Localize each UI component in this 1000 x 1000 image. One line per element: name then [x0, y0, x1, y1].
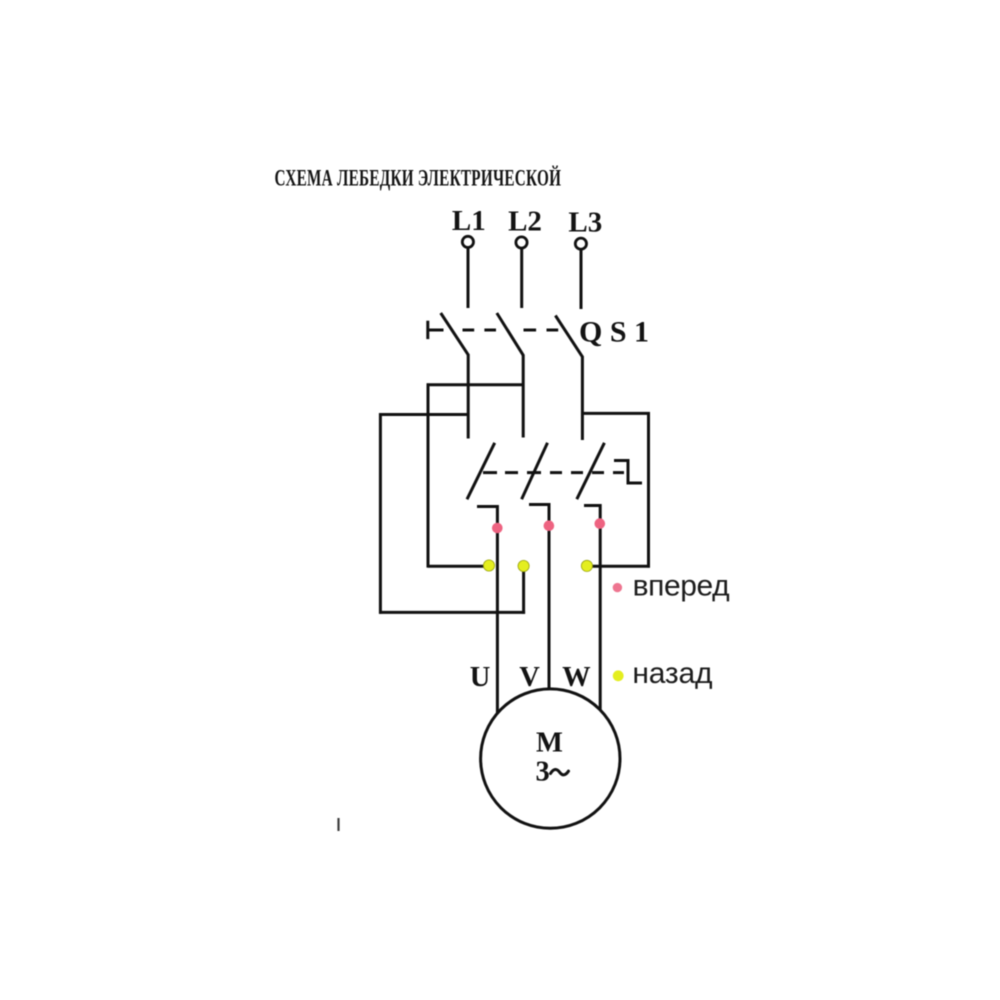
contactor linkage dashes [483, 471, 624, 474]
wire bus I horizontal bottom [379, 611, 525, 614]
wire bus A horizontal [427, 383, 524, 386]
wire L1 drop [467, 248, 470, 308]
wire bus C horizontal [379, 413, 468, 416]
wire bus E horizontal right [582, 412, 650, 415]
svg-text:назад: назад [632, 657, 712, 690]
wire L-out C [584, 506, 600, 711]
wire pole3 mid drop [581, 356, 584, 440]
svg-text:вперед: вперед [633, 569, 730, 602]
svg-text:L1: L1 [452, 205, 486, 237]
legend dot назад [613, 670, 624, 681]
wire bus F vertical right [647, 412, 650, 568]
wire L-out B [529, 505, 549, 690]
wire L-out A [477, 507, 497, 714]
motor M circle [481, 689, 620, 828]
contactor interlock step [614, 461, 642, 484]
terminal L2 [516, 237, 527, 248]
switch QS1 linkage dashes [463, 329, 559, 332]
contactor blade C [577, 443, 605, 499]
node pink C (вперед) [595, 518, 606, 529]
svg-text:QS1: QS1 [579, 316, 657, 349]
contactor blade B [522, 443, 548, 499]
svg-text:СХЕМА ЛЕБЕДКИ ЭЛЕКТРИЧЕСКОЙ: СХЕМА ЛЕБЕДКИ ЭЛЕКТРИЧЕСКОЙ [275, 165, 562, 191]
switch QS1 handle [428, 321, 444, 339]
title СХЕМА ЛЕБЕДКИ ЭЛЕКТРИЧЕСКОЙ [275, 165, 562, 191]
svg-text:W: W [562, 662, 591, 693]
wire pole2 mid drop [522, 355, 525, 438]
node yellow A (назад) [483, 560, 494, 571]
node pink A (вперед) [492, 523, 503, 534]
switch QS1 blade pole2 [497, 313, 523, 355]
terminal L3 [575, 238, 586, 249]
stray tick mark [337, 818, 339, 831]
node yellow C (назад) [581, 560, 592, 571]
switch QS1 blade pole3 [555, 316, 582, 357]
svg-text:3: 3 [536, 756, 550, 787]
svg-text:М: М [536, 727, 563, 758]
wire bus G horizontal [428, 565, 489, 568]
switch QS1 blade pole1 [441, 313, 469, 355]
legend dot вперед [613, 583, 622, 592]
wire pole1 mid drop [467, 354, 470, 439]
svg-text:V: V [519, 662, 540, 693]
wire bus H vertical [522, 566, 525, 614]
terminal L1 [462, 236, 473, 247]
svg-text:L2: L2 [508, 206, 542, 238]
wire bus J horizontal [587, 565, 650, 568]
node yellow B (назад) [518, 560, 529, 571]
wire L2 drop [520, 248, 523, 308]
wire bus B vertical [427, 383, 430, 567]
wire bus D vertical left [379, 413, 382, 614]
wire L3 drop [580, 250, 583, 309]
node pink B (вперед) [544, 520, 555, 531]
svg-text:L3: L3 [568, 207, 602, 239]
svg-text:U: U [470, 662, 491, 693]
contactor blade A [467, 443, 495, 500]
